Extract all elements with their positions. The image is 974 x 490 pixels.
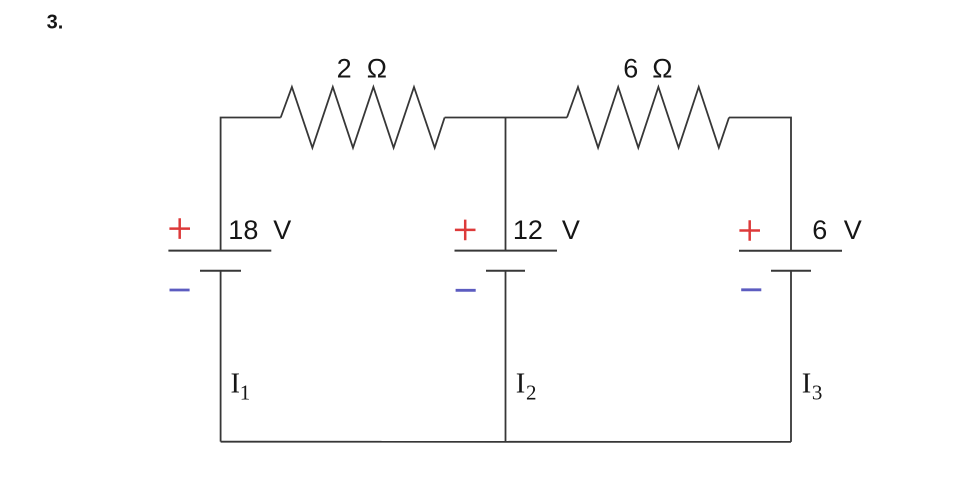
polarity mark: B3 minus (blue)	[741, 288, 761, 291]
battery B1: negative short plate	[200, 270, 241, 272]
svg-text:V: V	[844, 215, 862, 245]
wire: top-left corner (B1 positive up to top rail, right to R1 left lead)	[221, 118, 281, 251]
svg-text:2: 2	[337, 54, 352, 84]
resistor R1 (2 ohm) zigzag	[281, 87, 445, 148]
svg-text:V: V	[562, 215, 580, 245]
wire: node A down to B2 positive plate	[505, 118, 507, 251]
battery B3: negative short plate	[771, 270, 811, 272]
svg-text:12: 12	[513, 215, 543, 245]
battery B2: negative short plate	[486, 270, 525, 272]
polarity mark: B2 plus (red)	[455, 220, 476, 241]
battery B2 (12 V): positive long plate	[455, 250, 558, 252]
svg-text:18: 18	[228, 215, 258, 245]
wire: bottom rail connecting all three branches	[221, 441, 791, 443]
svg-text:6: 6	[623, 54, 638, 84]
svg-text:2: 2	[526, 381, 537, 405]
wire: B3 negative plate down right branch to bottom-right corner	[790, 272, 792, 442]
svg-text:3.: 3.	[47, 12, 64, 34]
wire: B1 negative plate down left branch to bottom-left corner	[220, 272, 222, 442]
wire: node A to R2 left lead	[506, 117, 568, 119]
svg-text:V: V	[273, 215, 291, 245]
svg-text:6: 6	[812, 215, 827, 245]
wire: B2 negative plate down middle branch to bottom rail	[505, 272, 507, 442]
polarity mark: B3 plus (red)	[739, 220, 760, 241]
polarity mark: B1 minus (blue)	[170, 289, 190, 292]
polarity mark: B1 plus (red)	[169, 218, 190, 239]
svg-text:Ω: Ω	[652, 54, 672, 84]
resistor R2 (6 ohm) zigzag	[567, 87, 729, 148]
wire: R1 right lead to node A (top middle junction)	[445, 117, 506, 119]
svg-text:I: I	[802, 369, 812, 400]
svg-text:3: 3	[812, 381, 823, 405]
wire: R2 right lead to top-right corner down to B3 positive	[729, 118, 791, 251]
battery B3 (6 V): positive long plate	[739, 250, 842, 252]
svg-text:I: I	[231, 369, 241, 400]
svg-text:1: 1	[240, 381, 251, 405]
svg-text:I: I	[516, 369, 526, 400]
battery B1 (18 V): positive long plate	[168, 250, 271, 252]
polarity mark: B2 minus (blue)	[456, 289, 476, 292]
svg-text:Ω: Ω	[367, 54, 387, 84]
